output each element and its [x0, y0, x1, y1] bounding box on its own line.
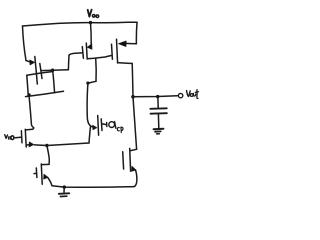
capacitor CL bottom lead — [157, 114, 159, 128]
transistor M5 source arrow — [118, 41, 126, 47]
ground symbol left — [63, 188, 65, 193]
wire M4 drain to M5 gate — [87, 56, 111, 59]
transistor M3 channel bar — [40, 64, 42, 79]
node stub tick — [106, 122, 108, 126]
wire M1 drain riser to mirror node — [29, 95, 34, 129]
wire M6 drain lead — [131, 149, 137, 150]
transistor M5 channel bar — [117, 39, 118, 63]
wire box top (M3 drain loop) — [27, 72, 53, 76]
transistor M1 (NMOS input) source arrow — [29, 142, 34, 147]
wire jog left — [88, 81, 96, 83]
transistor M1 gate bar — [20, 131, 23, 143]
ground symbol right — [154, 128, 164, 131]
wire M4 gate lead — [69, 53, 82, 55]
wire box right — [53, 70, 55, 93]
label a_cp — [109, 122, 123, 133]
wire VDD drop to M4 source — [90, 23, 93, 45]
wire output line — [133, 95, 177, 98]
transistor M7 source arrow — [44, 174, 48, 179]
power rail VDD — [23, 22, 138, 26]
transistor M4 source arrow — [87, 44, 92, 49]
transistor M6 (NMOS output) gate bar — [122, 152, 125, 169]
transistor M6 source arrow — [132, 166, 136, 171]
wire M7 drain lead — [42, 163, 49, 165]
transistor M7 gate bar — [35, 168, 38, 178]
wire M6 source down to ground rail — [134, 170, 137, 187]
label VDD — [88, 10, 99, 18]
transistor M7 gate stub — [34, 172, 36, 174]
wire long vertical to tail node — [87, 83, 91, 143]
transistor M4 (PMOS) gate bar — [82, 47, 83, 59]
capacitor CL top lead — [157, 97, 159, 108]
transistor M3 (PMOS, diode-connected) source arrow — [26, 61, 30, 62]
wire output node down to M6 drain — [133, 97, 137, 150]
capacitor CL top plate — [150, 107, 167, 110]
wire mirror node to M4 gate — [41, 69, 68, 72]
wire M2 stub right — [102, 123, 106, 126]
transistor M1 channel bar — [24, 129, 27, 147]
transistor M2 channel bar — [100, 119, 103, 131]
label Vin0 — [5, 135, 14, 140]
wire box bottom — [26, 91, 64, 96]
wire tail rail — [35, 143, 90, 146]
wire M1 gate lead — [15, 136, 21, 138]
wire branch down from M4 drain — [95, 58, 97, 81]
terminal Vout circle — [178, 93, 182, 97]
transistor M7 channel bar — [40, 164, 43, 184]
transistor M3 gate bar — [35, 57, 38, 85]
node tail dot — [45, 144, 48, 147]
transistor M2 source arrow (a_cp device) — [91, 125, 93, 127]
node box bottom dot — [27, 93, 30, 96]
wire M7 drain riser to tail node — [47, 146, 49, 165]
node load dot — [156, 95, 159, 98]
capacitor CL bottom plate — [151, 112, 167, 115]
wire left border from VDD to M3 source — [23, 26, 27, 61]
wire ground rail bottom — [52, 186, 134, 188]
transistor M4 channel bar — [85, 43, 88, 59]
transistor M2 gate bar — [97, 116, 100, 136]
wire vertical bend to M4 gate — [67, 55, 70, 70]
node dot — [86, 82, 89, 85]
wire M1 drain stub — [26, 128, 32, 131]
label Vout — [187, 90, 199, 99]
node ground rail dot — [63, 185, 66, 188]
transistor M7 (NMOS tail) source lead — [48, 178, 52, 186]
transistor M5 (PMOS) gate bar — [111, 44, 114, 59]
node output dot — [131, 95, 135, 99]
wire M5 drain down to output node — [118, 63, 133, 97]
transistor M6 channel bar — [129, 148, 132, 171]
wire box left — [27, 75, 29, 96]
wire VDD rail corner to M5 source — [126, 22, 137, 44]
node box top-right dot — [51, 69, 54, 72]
node VDD junction dot — [89, 21, 92, 24]
